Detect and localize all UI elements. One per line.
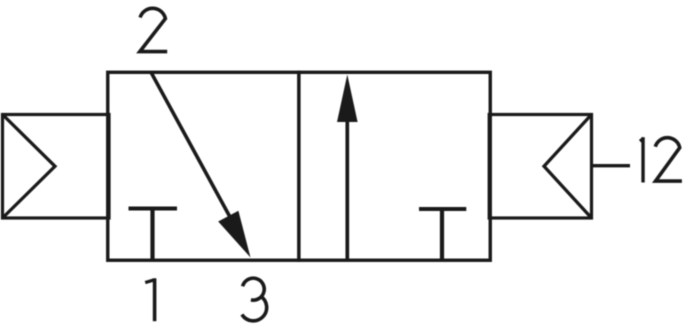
port label 3 (bottom) — [242, 278, 267, 321]
port 1 blocked symbol (left box): T bar — [129, 207, 178, 211]
valve body V1 (3/2-way valve, two position boxes) — [108, 72, 491, 260]
pilot triangle (left, pointing right) — [3, 115, 56, 219]
pilot triangle (right, pointing left) — [544, 115, 592, 219]
arrowhead of vertical flow path — [337, 75, 358, 123]
wire: flow path 2->3 diagonal shaft (left box) — [152, 73, 234, 222]
pilot actuator box (right) — [489, 115, 591, 219]
port 1 blocked symbol stem — [150, 209, 154, 261]
wire: flow path shaft vertical arrow (right box) — [345, 118, 349, 260]
wire: divider between position boxes — [297, 71, 301, 262]
pilot actuator box (left) — [3, 115, 110, 219]
wire: pilot line to label 12 — [592, 164, 631, 167]
blocked port symbol stem (right box) — [440, 209, 444, 260]
arrowhead of 2->3 flow path — [218, 211, 250, 258]
pilot port label 12 — [640, 137, 682, 182]
port label 1 (bottom left) — [145, 278, 154, 321]
port label 2 (top) — [140, 8, 167, 51]
blocked port symbol (right box): T bar — [419, 207, 466, 211]
